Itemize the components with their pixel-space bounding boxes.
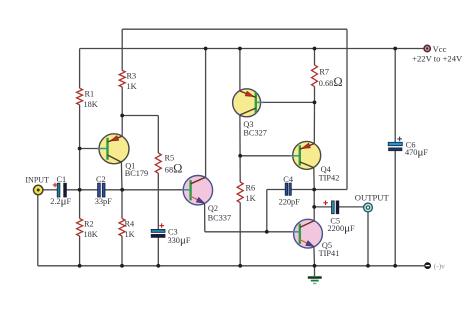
svg-text:1K: 1K [127, 82, 137, 91]
svg-text:33pF: 33pF [95, 197, 112, 206]
svg-text:Q4: Q4 [321, 165, 332, 174]
svg-text:R2: R2 [84, 220, 94, 229]
svg-text:R6: R6 [246, 184, 256, 193]
svg-text:R1: R1 [85, 90, 95, 99]
svg-text:TIP42: TIP42 [319, 174, 340, 183]
svg-text:1K: 1K [125, 230, 135, 239]
svg-text:BC337: BC337 [208, 213, 232, 222]
svg-text:220pF: 220pF [279, 197, 301, 206]
svg-text:Q2: Q2 [208, 204, 218, 213]
svg-text:R4: R4 [125, 220, 136, 229]
svg-text:BC327: BC327 [243, 129, 267, 138]
svg-text:R3: R3 [127, 72, 137, 81]
svg-text:C4: C4 [283, 175, 294, 184]
svg-text:1K: 1K [246, 194, 256, 203]
svg-text:18K: 18K [84, 100, 98, 109]
svg-text:Vcc: Vcc [433, 44, 447, 54]
svg-text:TIP41: TIP41 [319, 249, 340, 258]
svg-text:2200μF: 2200μF [328, 222, 356, 234]
svg-text:470μF: 470μF [405, 146, 428, 158]
svg-text:18K: 18K [84, 230, 98, 239]
svg-text:BC179: BC179 [125, 169, 149, 178]
svg-text:OUTPUT: OUTPUT [355, 194, 389, 203]
svg-text:C1: C1 [57, 175, 67, 184]
svg-text:330μF: 330μF [168, 234, 191, 246]
svg-text:INPUT: INPUT [25, 176, 49, 185]
svg-text:Q3: Q3 [243, 120, 253, 129]
svg-text:2.2μF: 2.2μF [50, 196, 71, 208]
svg-text:C2: C2 [96, 175, 106, 184]
svg-text:R7: R7 [319, 67, 329, 76]
svg-text:(-)v: (-)v [434, 261, 445, 270]
svg-text:+22V to +24V: +22V to +24V [412, 55, 462, 64]
